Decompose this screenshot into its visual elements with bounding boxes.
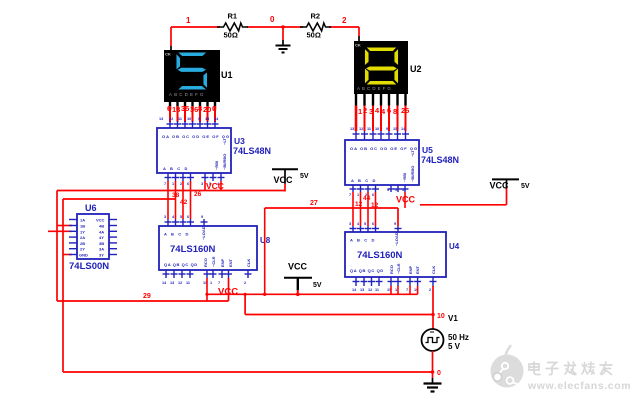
VCC symbol (left, 5V): [272, 169, 309, 191]
svg-text:1: 1: [186, 16, 191, 25]
svg-text:2Y: 2Y: [80, 247, 85, 252]
wire to U6 pin GND: [63, 254, 72, 256]
svg-text:ABCDEFG: ABCDEFG: [357, 86, 393, 91]
svg-text:18: 18: [172, 105, 180, 114]
svg-text:2: 2: [429, 288, 431, 292]
svg-text:1: 1: [210, 281, 212, 285]
seven-segment display U1: [164, 50, 233, 110]
svg-text:44: 44: [363, 195, 371, 202]
svg-text:15: 15: [205, 117, 209, 121]
wire V1 to ground: [431, 351, 435, 378]
svg-text:50Ω: 50Ω: [224, 31, 238, 40]
svg-text:3B: 3B: [99, 241, 104, 246]
svg-text:2: 2: [342, 16, 347, 25]
svg-text:3Y: 3Y: [99, 253, 104, 258]
NAND chip U6 74LS00N: [69, 203, 109, 272]
U8 top pins: [165, 219, 208, 226]
svg-text:GND: GND: [79, 253, 88, 258]
svg-text:11: 11: [178, 117, 182, 121]
svg-text:11: 11: [375, 288, 379, 292]
svg-text:13: 13: [170, 281, 174, 285]
U8 bottom pins: [163, 270, 252, 278]
wire U8 pins to rail: [207, 208, 265, 301]
resistor R2: [300, 12, 331, 40]
net VCC label (U5): [396, 195, 416, 205]
svg-text:74LS48N: 74LS48N: [233, 146, 271, 156]
svg-text:U2: U2: [410, 64, 422, 74]
svg-text:10: 10: [437, 313, 445, 320]
svg-text:ENT: ENT: [415, 265, 420, 274]
svg-text:~LOAD: ~LOAD: [201, 226, 206, 240]
wire bottom rail: [63, 371, 433, 373]
watermark logo: [491, 345, 524, 388]
U6 pins: [69, 220, 117, 255]
svg-text:RCO: RCO: [203, 258, 208, 267]
resistor R1: [217, 12, 248, 40]
svg-text:13: 13: [360, 288, 364, 292]
svg-text:11: 11: [367, 127, 371, 131]
svg-text:~RBI: ~RBI: [402, 173, 407, 182]
svg-text:~CLR: ~CLR: [396, 263, 401, 274]
svg-text:9: 9: [198, 117, 200, 121]
svg-text:15: 15: [393, 127, 397, 131]
svg-text:12: 12: [169, 117, 173, 121]
node 10: [437, 313, 445, 320]
svg-text:~LT: ~LT: [410, 150, 415, 157]
svg-text:9: 9: [386, 127, 388, 131]
svg-text:26: 26: [194, 191, 202, 198]
svg-text:1B: 1B: [80, 224, 85, 229]
U4 top pins: [350, 226, 402, 232]
U3 bottom pins: [165, 173, 225, 181]
svg-text:4Y: 4Y: [99, 235, 104, 240]
svg-text:9: 9: [394, 222, 396, 226]
wire stub to U6 pin 1Y: [48, 230, 72, 232]
svg-text:0: 0: [270, 15, 275, 24]
svg-text:A B C D: A B C D: [164, 232, 190, 237]
svg-text:2: 2: [180, 182, 182, 186]
svg-text:ENT: ENT: [228, 258, 233, 267]
svg-text:~LOAD: ~LOAD: [394, 232, 399, 246]
svg-text:QA QB QC QD: QA QB QC QD: [350, 268, 384, 273]
svg-text:74LS160N: 74LS160N: [357, 250, 403, 261]
net numbers under U1: [167, 104, 216, 114]
svg-text:5 V: 5 V: [448, 342, 461, 351]
U3 pin numbers (bottom): [164, 182, 220, 186]
wire left vertical V57: [56, 191, 58, 302]
svg-text:6: 6: [372, 222, 374, 226]
svg-text:2: 2: [244, 281, 246, 285]
svg-text:29: 29: [143, 293, 151, 300]
VCC symbol (middle, 5V): [284, 261, 322, 296]
svg-text:1: 1: [395, 288, 397, 292]
node 1: [186, 16, 191, 25]
svg-text:38: 38: [172, 192, 180, 199]
net VCC label (U3): [206, 181, 224, 191]
svg-text:14: 14: [214, 117, 219, 121]
svg-text:0: 0: [437, 370, 441, 377]
net VCC label (U8): [218, 287, 238, 298]
U3 top pins: [167, 121, 219, 128]
U5 pin numbers (top): [350, 127, 406, 131]
svg-text:3: 3: [349, 222, 351, 226]
svg-text:10: 10: [375, 127, 379, 131]
svg-text:10: 10: [187, 117, 191, 121]
svg-text:12: 12: [355, 201, 363, 208]
junction dot mid rail: [205, 293, 266, 296]
svg-text:14: 14: [162, 281, 167, 285]
net numbers under U2: [358, 106, 409, 116]
display U1 pins: [170, 102, 215, 110]
svg-text:VCC: VCC: [96, 218, 105, 223]
svg-text:VCC: VCC: [274, 175, 294, 185]
svg-text:www.elecfans.com: www.elecfans.com: [527, 380, 631, 392]
svg-text:50 Hz: 50 Hz: [448, 333, 469, 342]
svg-text:5V: 5V: [521, 183, 530, 190]
svg-text:6: 6: [372, 193, 374, 197]
svg-text:OA OB OC OD OE OF OG: OA OB OC OD OE OF OG: [350, 146, 418, 151]
svg-text:U4: U4: [449, 242, 460, 251]
svg-text:6: 6: [187, 215, 189, 219]
svg-text:3: 3: [387, 188, 389, 192]
svg-text:7: 7: [164, 182, 166, 186]
U5 pin numbers (bottom): [349, 188, 405, 197]
svg-text:~CLR: ~CLR: [211, 256, 216, 267]
svg-text:A B C D: A B C D: [351, 178, 377, 183]
svg-text:1: 1: [358, 107, 362, 116]
svg-text:U1: U1: [221, 70, 233, 80]
svg-text:12: 12: [368, 288, 372, 292]
svg-text:5V: 5V: [300, 173, 309, 180]
svg-text:2B: 2B: [80, 241, 85, 246]
risers U3 to U8: [168, 181, 191, 219]
wires U4 bottom to rail: [391, 286, 418, 294]
svg-text:QA QB QC QD: QA QB QC QD: [164, 262, 198, 267]
svg-text:2A: 2A: [80, 235, 85, 240]
node 0: [270, 15, 275, 24]
wire VCC to U3 area: [57, 181, 285, 191]
svg-text:CLK: CLK: [246, 259, 251, 267]
U4 bottom pins: [353, 277, 437, 286]
svg-text:14: 14: [352, 288, 357, 292]
svg-text:VCC: VCC: [490, 181, 510, 191]
wires U1 to U3: [170, 106, 215, 122]
risers U5 to U4: [353, 192, 376, 226]
U4 pin numbers: [349, 222, 431, 292]
node 0 (bottom): [437, 370, 441, 377]
counter U8 74LS160N: [159, 226, 271, 270]
U5 top pins: [353, 131, 410, 140]
wire to U6 pin 1B: [57, 225, 72, 227]
wire U4 CLK to V1: [431, 286, 435, 329]
digit 5 segments (cyan): [177, 52, 208, 57]
clock source V1: [422, 314, 469, 351]
U8 pin numbers: [162, 215, 246, 285]
svg-text:5: 5: [364, 222, 366, 226]
svg-text:~LT: ~LT: [222, 138, 227, 145]
svg-text:7: 7: [349, 193, 351, 197]
wire mid rail y294: [207, 293, 418, 295]
svg-text:74LS48N: 74LS48N: [421, 155, 459, 165]
svg-text:5V: 5V: [313, 282, 322, 289]
svg-text:R2: R2: [311, 12, 321, 21]
wire U5 VCC to right VCC: [420, 189, 507, 205]
wire top rail: [171, 27, 359, 51]
svg-text:A B C D: A B C D: [163, 166, 189, 171]
svg-text:4B: 4B: [99, 224, 104, 229]
svg-text:ENP: ENP: [220, 258, 225, 267]
svg-text:R1: R1: [228, 12, 238, 21]
wire 29: [57, 278, 229, 301]
svg-text:7: 7: [218, 281, 220, 285]
svg-text:RCO: RCO: [389, 265, 394, 274]
svg-text:6: 6: [187, 182, 189, 186]
watermark text: [527, 362, 631, 392]
svg-text:OA OB OC OD OE OF OG: OA OB OC OD OE OF OG: [162, 134, 230, 139]
wires U2 to U5: [356, 106, 406, 132]
svg-text:1Y: 1Y: [80, 229, 85, 234]
U3 pin numbers (top): [159, 117, 219, 121]
net numbers under U5: [355, 195, 379, 209]
ground (top, node 0): [276, 25, 291, 52]
svg-text:13: 13: [350, 127, 354, 131]
BCD decoder U5 74LS48N: [345, 140, 459, 185]
counter U4 74LS160N: [345, 232, 460, 277]
svg-text:U5: U5: [422, 145, 433, 155]
display U2 pins: [356, 94, 406, 106]
svg-text:12: 12: [359, 127, 363, 131]
svg-text:CK: CK: [165, 52, 171, 57]
svg-text:42: 42: [180, 199, 188, 206]
svg-text:A B C D: A B C D: [350, 238, 376, 243]
svg-text:ENP: ENP: [408, 265, 413, 274]
svg-text:4: 4: [172, 215, 175, 219]
seven-segment display U2: [354, 41, 422, 106]
svg-text:VCC: VCC: [218, 287, 238, 298]
svg-text:~BI/RBO: ~BI/RBO: [410, 166, 415, 182]
svg-text:~BI/RBO: ~BI/RBO: [222, 154, 227, 170]
ground (bottom): [424, 378, 442, 392]
svg-text:3A: 3A: [99, 247, 104, 252]
svg-text:CK: CK: [355, 43, 361, 48]
svg-text:9: 9: [201, 215, 203, 219]
svg-text:27: 27: [310, 200, 318, 207]
svg-text:ABCDEFG: ABCDEFG: [169, 92, 206, 97]
svg-text:3: 3: [164, 215, 166, 219]
BCD decoder U3 74LS48N: [157, 128, 271, 173]
svg-text:1A: 1A: [80, 218, 85, 223]
svg-text:3: 3: [201, 182, 203, 186]
svg-text:74LS00N: 74LS00N: [69, 261, 109, 272]
U5 bottom pins: [350, 185, 409, 192]
svg-text:4: 4: [357, 222, 360, 226]
wire left loop H2: [63, 198, 176, 200]
svg-text:1: 1: [172, 182, 174, 186]
svg-text:4A: 4A: [99, 229, 104, 234]
digit 8 segments (yellow): [366, 47, 398, 52]
wire left vertical V63: [62, 199, 64, 372]
svg-text:5: 5: [180, 215, 182, 219]
svg-text:~RBI: ~RBI: [214, 161, 219, 170]
svg-text:U3: U3: [234, 136, 245, 146]
node 2: [342, 16, 347, 25]
svg-text:11: 11: [186, 281, 190, 285]
svg-text:50Ω: 50Ω: [307, 31, 321, 40]
svg-text:VCC: VCC: [288, 261, 308, 271]
wire 27: [265, 192, 405, 226]
svg-text:CLK: CLK: [431, 266, 436, 274]
svg-text:V1: V1: [448, 314, 458, 323]
svg-text:7: 7: [406, 288, 408, 292]
svg-text:5: 5: [395, 188, 397, 192]
svg-text:U6: U6: [85, 203, 97, 213]
svg-text:1: 1: [357, 193, 359, 197]
VCC symbol (right, 5V): [490, 179, 530, 190]
svg-text:4: 4: [375, 106, 380, 115]
wire clock to V1 node 10: [245, 294, 433, 314]
net numbers under U3: [172, 191, 202, 206]
svg-text:74LS160N: 74LS160N: [170, 244, 216, 255]
svg-text:13: 13: [159, 117, 163, 121]
svg-text:12: 12: [178, 281, 182, 285]
